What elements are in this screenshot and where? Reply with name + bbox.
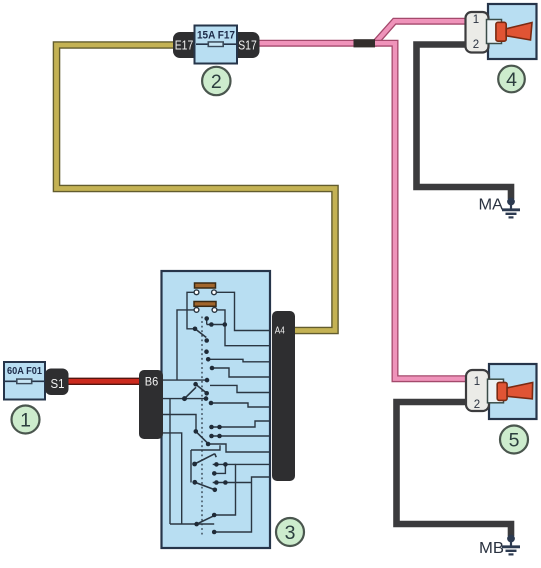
wire B6 line 4 <box>162 433 182 524</box>
horn 5 icon cone <box>507 383 533 399</box>
junction <box>209 401 214 406</box>
svg-text:S17: S17 <box>238 38 257 53</box>
junction <box>213 488 218 493</box>
switch arm 3 <box>185 387 197 398</box>
junction <box>204 349 209 354</box>
wire red: fuse F01 to switch B6 <box>64 378 144 385</box>
wire inner vertical <box>169 399 171 524</box>
horn 4 body <box>488 4 537 59</box>
junction <box>204 338 209 343</box>
wire contact to A4 line 6 <box>211 403 270 407</box>
horn 4 connector 1/2 <box>466 12 489 53</box>
fuse F01 through-wire <box>5 380 44 382</box>
wire park stub <box>190 450 192 483</box>
svg-text:4: 4 <box>506 69 517 91</box>
steering column switch unit 3 body <box>162 271 271 548</box>
svg-text:E17: E17 <box>175 38 194 53</box>
horn 4 mount tab <box>487 20 502 44</box>
callout 4 <box>498 66 525 93</box>
switch arm 1 <box>195 329 206 338</box>
wire yellow: fuse F17 to switch A4 <box>57 45 336 331</box>
junction <box>204 316 209 321</box>
wire bottom bus <box>170 523 214 525</box>
junction <box>212 471 217 476</box>
wire stub contact <box>214 464 225 473</box>
resistor R1 <box>195 283 216 288</box>
junction <box>214 480 219 485</box>
splice sleeve on pink wire <box>354 39 376 47</box>
junction <box>194 522 199 527</box>
horn 5 icon driver <box>497 382 507 400</box>
junction <box>192 480 197 485</box>
fuse F17 box <box>195 26 238 64</box>
junction <box>206 442 211 447</box>
fuse F17 through-wire <box>196 43 236 45</box>
junction <box>182 396 187 401</box>
wire contact pair bottom <box>213 463 236 465</box>
svg-text:1: 1 <box>20 410 31 432</box>
junction <box>192 462 197 467</box>
wire pink: fuse S17 to horn 4 pin 1 <box>256 21 469 43</box>
horn 5 body <box>489 364 537 419</box>
wire B6 line 3 <box>162 415 196 431</box>
switch arm 2 <box>196 384 207 393</box>
wire black: horn 5 pin 2 to ground MB <box>397 402 512 536</box>
wire contact to A4 line 9 <box>208 444 269 452</box>
junction <box>205 378 210 383</box>
svg-text:B6: B6 <box>145 375 159 389</box>
ground MA <box>502 198 520 218</box>
callout 1 <box>12 406 40 434</box>
junction <box>194 429 199 434</box>
fuse F17 element <box>208 41 225 47</box>
wire contact to A4 line 8 <box>212 435 270 437</box>
junction <box>223 322 228 327</box>
wire R2 right to A4 <box>215 310 270 346</box>
junction <box>212 513 217 518</box>
wire stub contact 2 <box>213 482 252 484</box>
switch arm 7 <box>197 516 214 524</box>
svg-text:A4: A4 <box>275 325 285 337</box>
neutral position dashed line <box>201 317 203 536</box>
horn 5 mount tab <box>488 379 504 403</box>
wire R1 left leg <box>187 292 194 329</box>
contact dots <box>182 316 228 534</box>
terminal R2 left <box>194 308 199 313</box>
wire black: horn 4 pin 2 to ground MA <box>417 45 512 200</box>
connector B6 <box>139 370 163 439</box>
horn 4 icon cone <box>506 23 532 41</box>
junction <box>214 462 219 467</box>
fuse holder 2 connector body E17/S17 <box>173 32 260 58</box>
switch arm 4 <box>196 431 208 443</box>
junction <box>204 391 209 396</box>
svg-text:MA: MA <box>479 197 504 214</box>
wire contact pair top <box>206 319 208 325</box>
svg-text:2: 2 <box>211 71 222 93</box>
connector A4 <box>272 311 295 481</box>
svg-text:2: 2 <box>474 399 480 411</box>
callout 2 <box>202 67 230 95</box>
junction <box>209 434 214 439</box>
junction <box>223 462 228 467</box>
svg-text:1: 1 <box>473 14 479 26</box>
junction <box>209 425 214 430</box>
wire contact to A4 line 4 <box>212 368 270 377</box>
switch arms <box>185 329 217 524</box>
wire contact to A4 line 5 <box>210 385 270 392</box>
wiper park contact <box>191 445 220 450</box>
callout 5 <box>500 426 528 454</box>
junction <box>193 327 198 332</box>
horn 5 connector 1/2 <box>466 370 489 411</box>
terminal R1 right <box>212 290 217 295</box>
resistor R2 <box>194 302 216 307</box>
wire R1 right to A4 <box>215 292 270 330</box>
callout 3 <box>276 518 304 546</box>
connector S1 <box>45 369 69 396</box>
wire bottom contact to A4 line 11 <box>214 477 269 532</box>
svg-text:60A F01: 60A F01 <box>7 366 42 377</box>
svg-text:15A F17: 15A F17 <box>197 30 235 42</box>
wire contact to A4 line 3 <box>208 359 269 362</box>
wire bottom contact to A4 line 10 <box>214 464 269 515</box>
terminal R2 right <box>212 308 217 313</box>
wire B6 line 2 <box>162 398 206 400</box>
switch arm 6 <box>195 482 215 490</box>
wire R2 left leg <box>177 310 194 380</box>
ground MB <box>502 535 520 555</box>
svg-text:5: 5 <box>509 430 520 452</box>
junction <box>217 425 222 430</box>
junction <box>223 480 228 485</box>
junction <box>206 357 211 362</box>
junction <box>209 322 214 327</box>
junction <box>212 530 217 535</box>
junction <box>217 434 222 439</box>
svg-text:MB: MB <box>479 540 504 557</box>
wire contact to A4 line 7 <box>212 421 270 427</box>
fuse F01 box <box>4 362 45 400</box>
svg-text:S1: S1 <box>51 377 65 391</box>
svg-text:2: 2 <box>473 39 479 51</box>
horn 4 icon driver <box>496 22 506 41</box>
terminal R1 left <box>194 290 199 295</box>
wire B6 line 1 <box>162 379 207 381</box>
junction <box>210 366 215 371</box>
svg-text:1: 1 <box>474 376 480 388</box>
switch unit internal wiring <box>162 292 270 532</box>
fuse F01 element <box>16 378 33 384</box>
switch arm 5 <box>195 454 215 464</box>
wire pink: branch to horn 5 pin 1 <box>374 43 469 379</box>
svg-text:3: 3 <box>285 522 296 544</box>
junction <box>204 396 209 401</box>
junction <box>193 382 198 387</box>
